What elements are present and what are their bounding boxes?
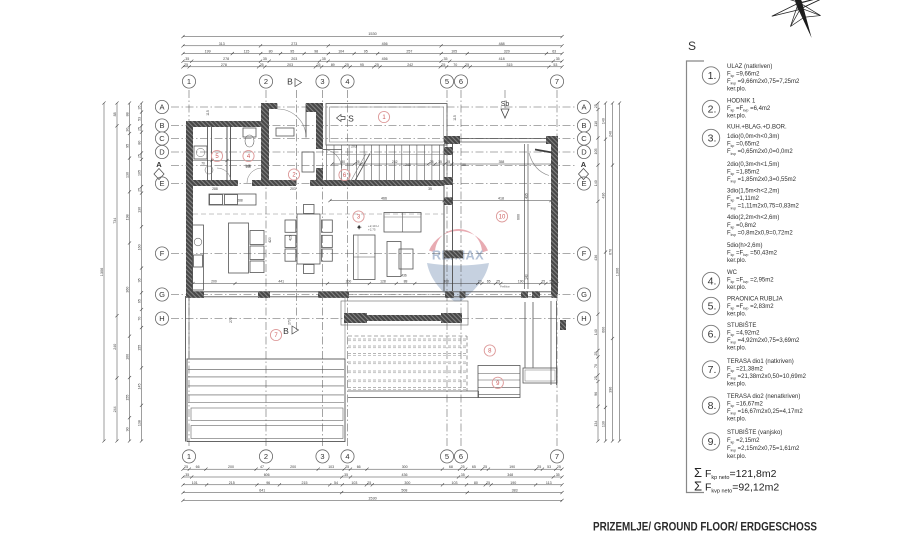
svg-text:A: A — [581, 160, 587, 169]
svg-text:6: 6 — [459, 77, 463, 86]
svg-text:101: 101 — [192, 481, 198, 485]
svg-text:96: 96 — [266, 481, 270, 485]
svg-text:104: 104 — [338, 50, 344, 54]
svg-text:B: B — [159, 121, 164, 130]
svg-text:95: 95 — [360, 63, 364, 67]
svg-text:5: 5 — [445, 452, 449, 461]
room 10 glazing track lines — [524, 144, 526, 289]
svg-text:425: 425 — [289, 235, 293, 241]
vestibule closet — [302, 152, 314, 172]
svg-text:88: 88 — [404, 280, 408, 284]
svg-text:348: 348 — [507, 473, 513, 477]
section B-B line — [296, 90, 298, 330]
svg-text:ker.plo.: ker.plo. — [727, 285, 747, 291]
svg-text:25: 25 — [541, 280, 545, 284]
svg-text:ker.plo.: ker.plo. — [727, 312, 747, 318]
svg-text:436: 436 — [402, 473, 408, 477]
svg-text:8.: 8. — [708, 400, 717, 412]
svg-text:68: 68 — [449, 465, 453, 469]
svg-text:C: C — [581, 134, 587, 143]
svg-text:Fkvp =1,11m2x0,75=0,83m2: Fkvp =1,11m2x0,75=0,83m2 — [727, 204, 800, 211]
terrace 7 right boundary — [344, 296, 346, 359]
wall vestibule right pier — [306, 103, 323, 112]
svg-text:25: 25 — [184, 465, 188, 469]
svg-text:508: 508 — [401, 489, 407, 493]
dining chairs top bottom — [304, 205, 315, 214]
svg-text:5.: 5. — [708, 301, 717, 313]
svg-text:315: 315 — [507, 63, 513, 67]
svg-text:25: 25 — [594, 104, 598, 108]
stairs section break diagonal — [354, 154, 370, 183]
svg-text:128: 128 — [380, 280, 386, 284]
svg-text:641: 641 — [259, 489, 265, 493]
svg-text:Fkp =Fkvp =2,95m2: Fkp =Fkvp =2,95m2 — [727, 278, 774, 285]
planter wall between G and H right — [341, 301, 468, 325]
svg-text:53: 53 — [553, 63, 557, 67]
svg-text:54: 54 — [334, 481, 338, 485]
svg-text:110: 110 — [594, 121, 598, 127]
svg-text:35: 35 — [344, 473, 348, 477]
svg-text:25: 25 — [461, 465, 465, 469]
svg-text:53: 53 — [137, 117, 141, 121]
svg-text:6.: 6. — [708, 329, 717, 341]
legend item 4 WC — [702, 272, 719, 289]
svg-text:160: 160 — [126, 354, 130, 360]
svg-text:88: 88 — [462, 163, 466, 167]
compass rose — [760, 0, 840, 48]
svg-text:HODNIK 1: HODNIK 1 — [727, 99, 756, 105]
dining chairs left — [285, 220, 296, 232]
svg-text:S: S — [348, 114, 354, 124]
svg-text:A: A — [581, 103, 586, 112]
svg-text:3: 3 — [320, 77, 324, 86]
svg-text:1306: 1306 — [100, 268, 104, 276]
svg-text:25: 25 — [345, 63, 349, 67]
svg-text:25: 25 — [356, 160, 360, 164]
svg-text:244: 244 — [113, 406, 117, 412]
svg-text:7: 7 — [555, 452, 559, 461]
svg-text:9.: 9. — [708, 436, 717, 448]
svg-text:4: 4 — [345, 452, 349, 461]
svg-text:5: 5 — [445, 77, 449, 86]
svg-text:160: 160 — [137, 244, 141, 250]
wall vestibule left — [261, 103, 269, 186]
RE/MAX watermark balloon — [427, 229, 489, 302]
svg-text:456: 456 — [382, 57, 388, 61]
right dimension chain columns — [597, 103, 599, 441]
svg-text:STUBIŠTE: STUBIŠTE — [727, 322, 756, 329]
svg-text:145: 145 — [137, 384, 141, 390]
svg-text:103: 103 — [351, 481, 357, 485]
sofa vertical armchair — [354, 235, 376, 280]
svg-text:53: 53 — [550, 280, 554, 284]
grid circles bottom — [182, 450, 195, 463]
entrance arrow S — [337, 115, 346, 122]
entrance door arc — [278, 109, 307, 138]
svg-text:G: G — [581, 290, 587, 299]
wall left outer — [186, 121, 193, 295]
outdoor stairs room 9 — [478, 366, 520, 398]
bottom dimension chain rows — [183, 468, 562, 470]
svg-text:105: 105 — [594, 149, 598, 155]
svg-text:488: 488 — [499, 42, 505, 46]
svg-text:200: 200 — [211, 280, 217, 284]
svg-text:436: 436 — [401, 274, 407, 278]
terrace 8 bottom edge — [348, 390, 479, 392]
svg-text:ker.plo.: ker.plo. — [727, 382, 747, 388]
svg-text:155: 155 — [137, 345, 141, 351]
svg-text:35: 35 — [185, 473, 189, 477]
svg-text:35: 35 — [556, 57, 560, 61]
svg-text:436: 436 — [602, 193, 606, 199]
svg-text:203: 203 — [290, 187, 296, 191]
svg-text:TERASA dio1 (natkriven): TERASA dio1 (natkriven) — [727, 359, 794, 365]
svg-text:2: 2 — [264, 77, 268, 86]
svg-text:STUBIŠTE (vanjsko): STUBIŠTE (vanjsko) — [727, 429, 782, 436]
terrace 7 deck plank lines — [188, 369, 344, 371]
svg-text:1306: 1306 — [616, 268, 620, 276]
svg-text:ker.plo.: ker.plo. — [727, 454, 747, 460]
svg-text:3: 3 — [320, 452, 324, 461]
svg-text:257: 257 — [406, 50, 412, 54]
svg-text:25: 25 — [465, 63, 469, 67]
legend item 9 STUBISTE vanjsko — [702, 433, 719, 450]
svg-text:Σ Fkvp neto=92,12m2: Σ Fkvp neto=92,12m2 — [694, 479, 779, 495]
svg-text:313: 313 — [219, 42, 225, 46]
svg-text:Prellikon: Prellikon — [500, 285, 511, 289]
svg-text:199: 199 — [205, 50, 211, 54]
svg-text:138: 138 — [137, 420, 141, 426]
wall wing right — [551, 136, 558, 294]
svg-text:25: 25 — [441, 63, 445, 67]
svg-text:F: F — [582, 249, 587, 258]
svg-text:1dio(0,0m<h<0,3m): 1dio(0,0m<h<0,3m) — [727, 134, 779, 140]
svg-text:140: 140 — [525, 274, 529, 280]
svg-text:25: 25 — [483, 465, 487, 469]
svg-text:Fkvp =2,15m2x0,75=1,61m2: Fkvp =2,15m2x0,75=1,61m2 — [727, 446, 800, 453]
svg-text:65: 65 — [137, 299, 141, 303]
stairs treads — [326, 155, 328, 182]
svg-text:25: 25 — [345, 465, 349, 469]
svg-text:140: 140 — [601, 118, 605, 124]
svg-text:ker.plo.: ker.plo. — [727, 417, 747, 423]
svg-text:2: 2 — [264, 452, 268, 461]
svg-text:670: 670 — [608, 249, 612, 255]
svg-text:215: 215 — [229, 481, 235, 485]
svg-text:80: 80 — [269, 50, 273, 54]
svg-text:ker.plo.: ker.plo. — [727, 346, 747, 352]
svg-text:1530: 1530 — [368, 32, 376, 36]
wall utility block top — [186, 121, 269, 127]
svg-text:2.: 2. — [708, 104, 717, 116]
svg-text:7: 7 — [555, 77, 559, 86]
svg-text:383: 383 — [512, 489, 518, 493]
interior dimension row stairs and room10 — [332, 163, 551, 165]
svg-text:278: 278 — [223, 57, 229, 61]
room4 sink — [276, 128, 294, 136]
svg-text:7.: 7. — [708, 364, 717, 376]
wc fixtures room4 — [243, 128, 256, 137]
svg-text:G: G — [159, 290, 165, 299]
svg-text:145: 145 — [245, 165, 251, 169]
svg-text:4: 4 — [345, 77, 349, 86]
svg-text:155: 155 — [126, 395, 130, 401]
svg-text:35: 35 — [444, 57, 448, 61]
svg-text:436: 436 — [594, 255, 598, 261]
svg-text:95: 95 — [137, 278, 141, 282]
svg-text:4dio(2,2m<h<2,6m): 4dio(2,2m<h<2,6m) — [727, 215, 779, 221]
svg-text:734: 734 — [113, 218, 117, 224]
svg-text:242: 242 — [392, 160, 398, 164]
svg-text:63: 63 — [552, 50, 556, 54]
svg-text:242: 242 — [407, 63, 413, 67]
svg-text:105: 105 — [137, 170, 141, 176]
legend item 3 KUH BLAG DBOR — [702, 129, 719, 146]
svg-text:Σ Fkp neto=121,8m2: Σ Fkp neto=121,8m2 — [694, 465, 777, 481]
svg-text:ker.plo.: ker.plo. — [727, 87, 747, 93]
svg-text:KUH.+BLAG.+D.BOR.: KUH.+BLAG.+D.BOR. — [727, 125, 787, 131]
svg-text:E: E — [581, 179, 586, 188]
svg-text:Fkp =Fkvp =2,83m2: Fkp =Fkvp =2,83m2 — [727, 304, 774, 311]
svg-text:456: 456 — [382, 42, 388, 46]
grid letter circles right — [577, 100, 590, 113]
svg-text:35: 35 — [461, 473, 465, 477]
svg-text:70: 70 — [594, 364, 598, 368]
svg-text:88: 88 — [126, 112, 130, 116]
svg-text:65: 65 — [472, 465, 476, 469]
vertical grid lines 1-7 — [188, 90, 190, 446]
legend bracket — [687, 61, 705, 493]
svg-text:270: 270 — [229, 317, 233, 323]
svg-text:H: H — [581, 314, 586, 323]
svg-text:35: 35 — [556, 473, 560, 477]
svg-text:PRIZEMLJE/ GROUND FLOOR/ ERDGE: PRIZEMLJE/ GROUND FLOOR/ ERDGESCHOSS — [593, 520, 817, 534]
svg-text:96: 96 — [594, 392, 598, 396]
svg-text:80: 80 — [474, 481, 478, 485]
svg-text:Fkvp =16,67m2x0,25=4,17m2: Fkvp =16,67m2x0,25=4,17m2 — [727, 409, 803, 416]
svg-text:25: 25 — [184, 63, 188, 67]
svg-text:70: 70 — [201, 162, 205, 166]
svg-text:360: 360 — [126, 287, 130, 293]
legend item 5 PRAONICA — [702, 297, 719, 314]
svg-text:203: 203 — [287, 63, 293, 67]
svg-text:25: 25 — [537, 465, 541, 469]
svg-text:S: S — [688, 39, 696, 53]
svg-text:606: 606 — [264, 473, 270, 477]
svg-text:25: 25 — [138, 154, 142, 158]
terrace 7 left edge wall — [185, 296, 187, 442]
partition left of room5 — [207, 127, 209, 180]
svg-text:273: 273 — [291, 42, 297, 46]
svg-text:2dio(0,3m<h<1,5m): 2dio(0,3m<h<1,5m) — [727, 162, 779, 168]
svg-text:TERASA dio2 (nenatkriven): TERASA dio2 (nenatkriven) — [727, 394, 800, 400]
terrace 8 dashed plank lines — [348, 338, 466, 340]
sofa horizontal — [384, 213, 421, 233]
svg-text:270: 270 — [288, 319, 292, 325]
horizontal grid lines A-H — [171, 106, 577, 108]
svg-text:418: 418 — [499, 57, 505, 61]
svg-text:130: 130 — [602, 421, 606, 427]
dining chairs right — [322, 220, 333, 232]
svg-text:320: 320 — [504, 50, 510, 54]
svg-text:66: 66 — [357, 465, 361, 469]
svg-text:140: 140 — [594, 329, 598, 335]
svg-text:25: 25 — [317, 63, 321, 67]
legend item 8 TERASA dio2 — [702, 397, 719, 414]
boiler circle — [205, 166, 213, 174]
svg-text:134: 134 — [594, 421, 598, 427]
grid letter circles left — [155, 100, 168, 113]
washing machine room5 — [194, 146, 207, 159]
svg-text:80: 80 — [341, 160, 345, 164]
svg-text:466: 466 — [381, 197, 387, 201]
svg-text:103: 103 — [452, 481, 458, 485]
svg-text:80: 80 — [138, 141, 142, 145]
svg-text:103: 103 — [328, 465, 334, 469]
svg-text:70: 70 — [138, 317, 142, 321]
svg-text:D: D — [159, 148, 165, 157]
svg-text:190: 190 — [518, 280, 524, 284]
laundry dim row — [193, 160, 261, 162]
kitchen left counter — [193, 225, 204, 290]
svg-text:47: 47 — [260, 465, 264, 469]
svg-text:115: 115 — [453, 115, 457, 121]
svg-text:25: 25 — [594, 352, 598, 356]
svg-text:242: 242 — [405, 163, 411, 167]
svg-text:A: A — [159, 103, 164, 112]
svg-text:288: 288 — [212, 187, 218, 191]
room5 door arc — [217, 168, 231, 182]
svg-text:300: 300 — [404, 481, 410, 485]
svg-text:600: 600 — [517, 214, 521, 220]
terrace 7 deck border — [187, 359, 345, 442]
ceiling zone dashed line — [193, 213, 444, 215]
svg-text:25: 25 — [557, 465, 561, 469]
svg-text:1: 1 — [187, 77, 191, 86]
svg-text:53: 53 — [547, 465, 551, 469]
svg-text:A: A — [156, 160, 162, 169]
svg-text:WC: WC — [727, 270, 738, 276]
room 10 door arc — [529, 153, 549, 176]
svg-text:25: 25 — [594, 376, 598, 380]
dining table — [297, 214, 320, 264]
svg-text:30: 30 — [126, 128, 130, 132]
porch slab room 1 outline — [326, 104, 447, 146]
wall wing top — [444, 136, 460, 144]
svg-text:ULAZ (natkriven): ULAZ (natkriven) — [727, 64, 772, 70]
svg-text:215: 215 — [302, 481, 308, 485]
svg-text:441: 441 — [278, 280, 284, 284]
ceiling light symbol room3 — [357, 225, 361, 229]
svg-text:25: 25 — [430, 160, 434, 164]
svg-text:D: D — [581, 148, 587, 157]
svg-text:89: 89 — [331, 63, 335, 67]
svg-text:C: C — [159, 134, 165, 143]
svg-text:25: 25 — [446, 160, 450, 164]
svg-text:65: 65 — [487, 280, 491, 284]
svg-text:203: 203 — [291, 57, 297, 61]
svg-text:4.: 4. — [708, 276, 717, 288]
section A-A line — [171, 165, 577, 167]
wall grid5 living-east double line with piers — [443, 144, 445, 291]
svg-text:278: 278 — [221, 63, 227, 67]
svg-text:140: 140 — [594, 180, 598, 186]
svg-text:25: 25 — [496, 280, 500, 284]
legend item 6 STUBISTE — [702, 325, 719, 342]
svg-text:358: 358 — [499, 160, 505, 164]
svg-text:3.: 3. — [708, 133, 717, 145]
legend item 1 ULAZ — [702, 67, 719, 84]
svg-text:Fkvp =21,38m2x0,50=10,69m2: Fkvp =21,38m2x0,50=10,69m2 — [727, 374, 807, 381]
svg-text:25: 25 — [137, 188, 141, 192]
svg-text:113: 113 — [546, 481, 552, 485]
wall divider rooms 5-4 thin — [226, 127, 228, 180]
svg-text:435: 435 — [525, 193, 529, 199]
svg-text:70: 70 — [453, 63, 457, 67]
svg-text:300: 300 — [443, 280, 449, 284]
svg-text:288: 288 — [237, 199, 243, 203]
svg-text:115: 115 — [244, 50, 250, 54]
svg-text:Fkvp =1,85m2x0,3=0,55m2: Fkvp =1,85m2x0,3=0,55m2 — [727, 177, 797, 184]
wall vestibule right with door — [316, 109, 323, 149]
svg-text:418: 418 — [498, 197, 504, 201]
terrace 8 dashed boundary — [348, 335, 467, 337]
svg-text:6: 6 — [459, 452, 463, 461]
island chairs — [250, 231, 264, 245]
svg-text:Fkvp =0,65m2x0,0=0,0m2: Fkvp =0,65m2x0,0=0,0m2 — [727, 149, 793, 156]
coffee tables — [387, 242, 401, 277]
legend item 2 HODNIK — [702, 100, 719, 117]
svg-text:35: 35 — [137, 106, 141, 110]
svg-text:35: 35 — [322, 57, 326, 61]
porch south edge step ticks — [326, 145, 328, 154]
svg-text:200: 200 — [290, 465, 296, 469]
svg-text:35: 35 — [428, 187, 432, 191]
svg-text:115: 115 — [206, 110, 210, 116]
svg-text:Fkvp =4,92m2x0,75=3,69m2: Fkvp =4,92m2x0,75=3,69m2 — [727, 338, 800, 345]
svg-text:1530: 1530 — [368, 496, 376, 500]
svg-text:90: 90 — [126, 427, 130, 431]
svg-text:1.: 1. — [708, 70, 717, 82]
svg-text:35: 35 — [438, 160, 442, 164]
svg-text:25: 25 — [260, 63, 264, 67]
svg-text:198: 198 — [126, 214, 130, 220]
svg-text:Fkvp =9,66m2x0,75=7,25m2: Fkvp =9,66m2x0,75=7,25m2 — [727, 79, 800, 86]
svg-text:200: 200 — [228, 465, 234, 469]
svg-text:240: 240 — [113, 344, 117, 350]
svg-text:1: 1 — [187, 452, 191, 461]
svg-text:95: 95 — [364, 50, 368, 54]
svg-text:600: 600 — [601, 327, 605, 333]
room4 door arc — [247, 168, 262, 183]
svg-text:ker.plo.: ker.plo. — [727, 114, 747, 120]
svg-text:190: 190 — [509, 465, 515, 469]
svg-text:35: 35 — [185, 57, 189, 61]
svg-text:203: 203 — [351, 145, 357, 149]
svg-text:E: E — [159, 179, 164, 188]
svg-text:420: 420 — [268, 237, 272, 243]
svg-text:B: B — [581, 121, 586, 130]
svg-text:20: 20 — [478, 280, 482, 284]
svg-text:B: B — [287, 77, 293, 87]
legend item 7 TERASA dio1 — [702, 361, 719, 378]
svg-text:25: 25 — [137, 127, 141, 131]
svg-text:25: 25 — [367, 481, 371, 485]
svg-text:Fkvp =0,8m2x0,9=0,72m2: Fkvp =0,8m2x0,9=0,72m2 — [727, 230, 793, 237]
kitchen island — [229, 223, 249, 273]
wall vestibule top with door opening — [261, 103, 277, 109]
room number circles red — [378, 111, 389, 122]
